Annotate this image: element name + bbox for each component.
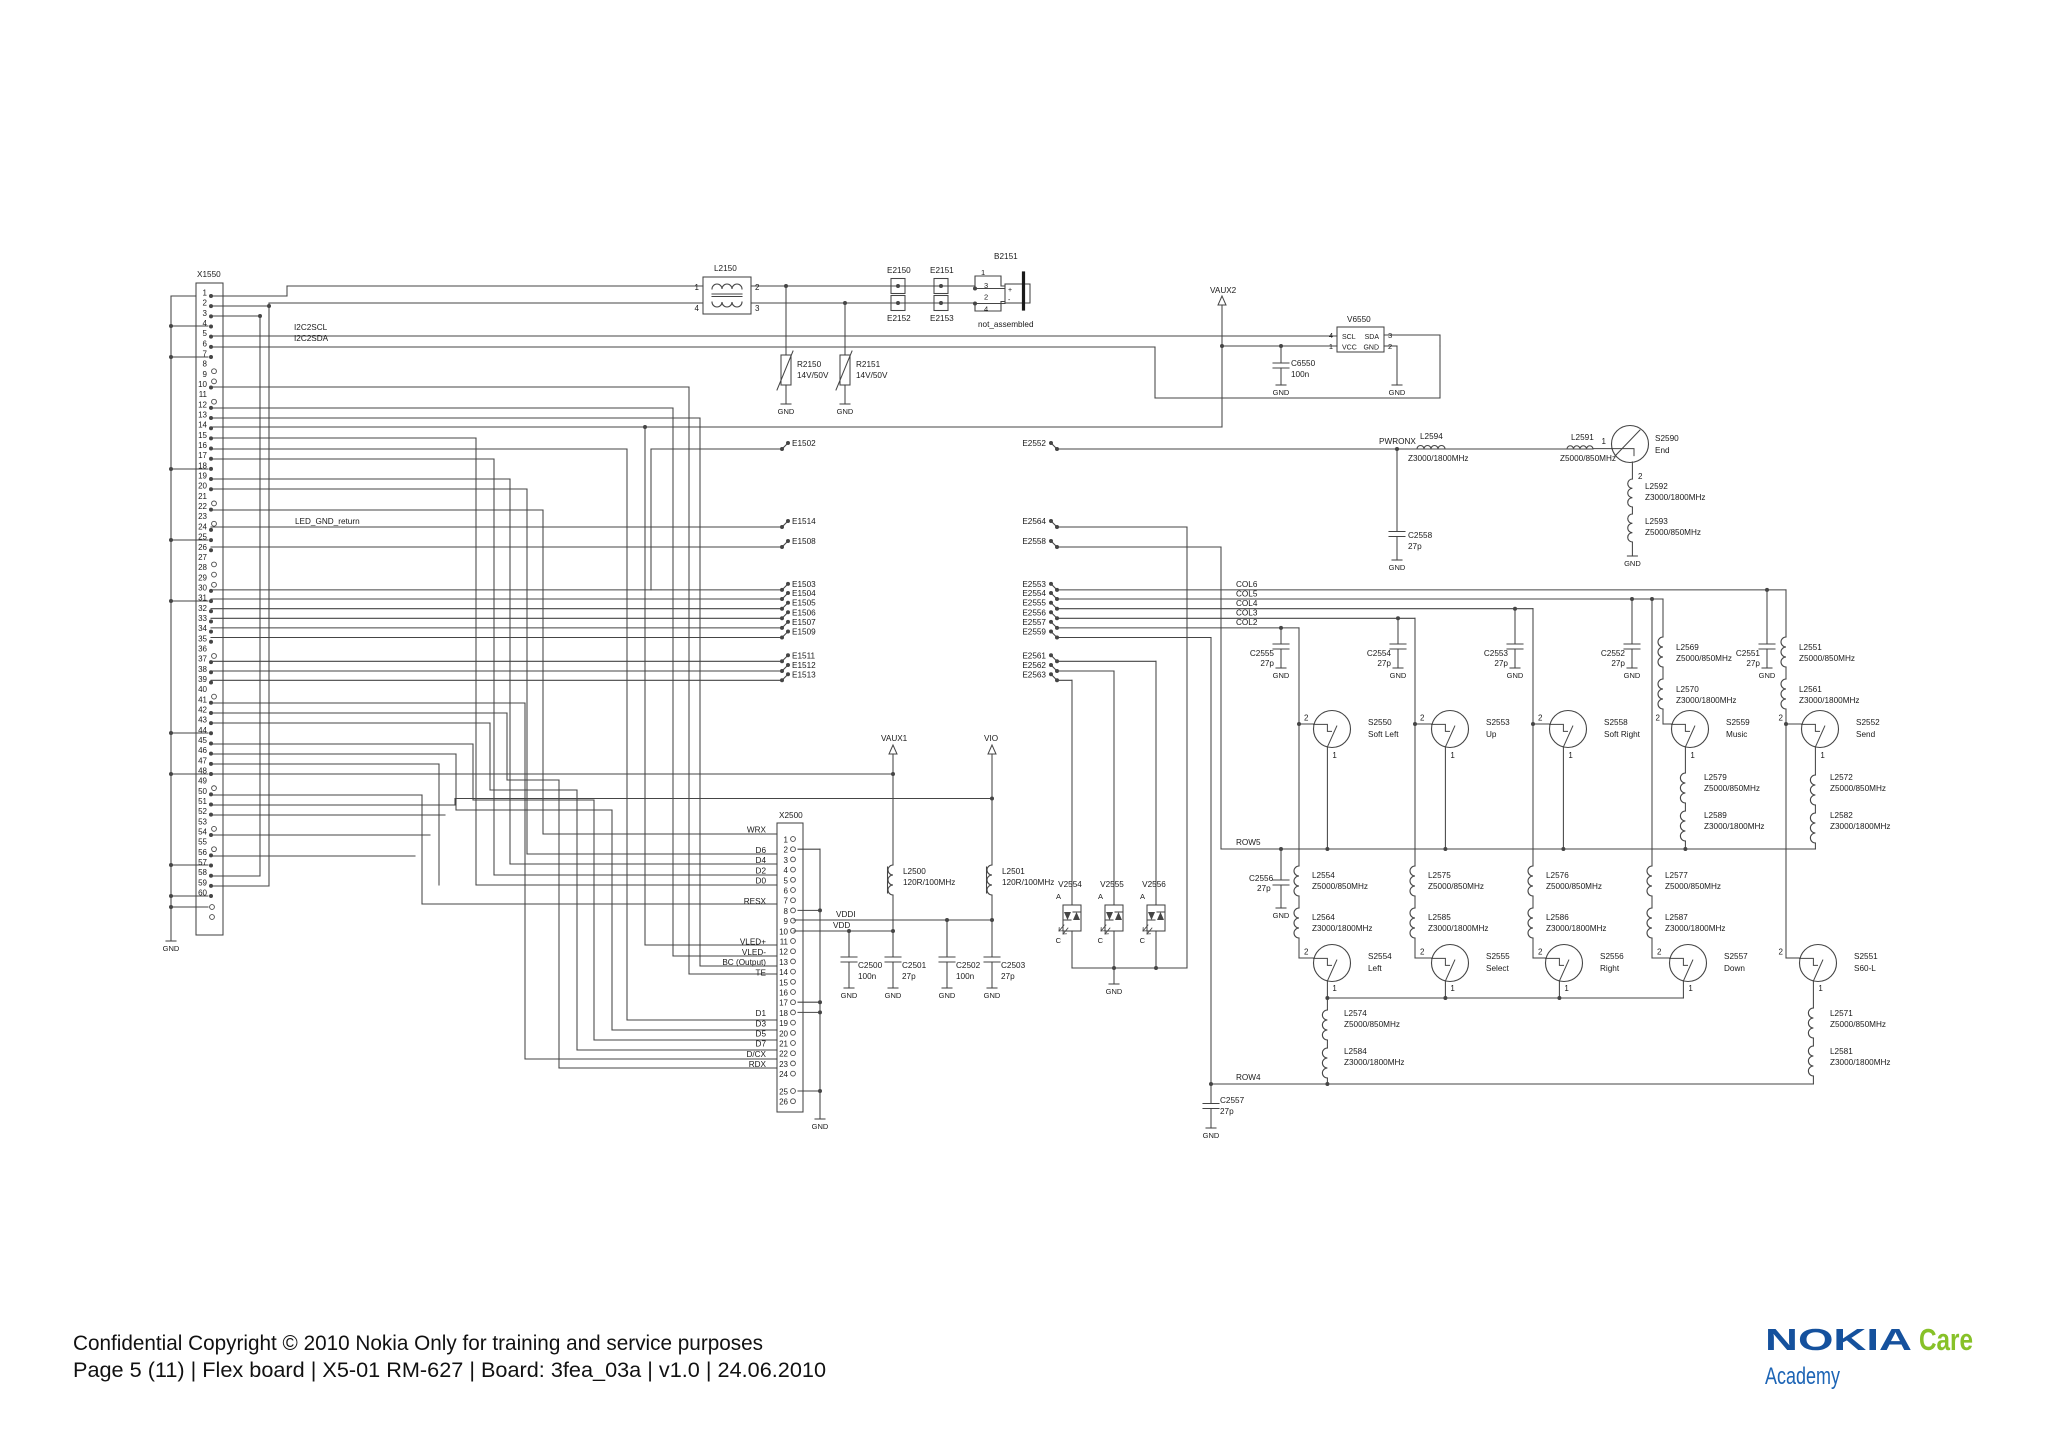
svg-text:L2570: L2570 — [1676, 685, 1699, 694]
svg-text:GND: GND — [1363, 345, 1379, 352]
svg-text:GND: GND — [885, 991, 902, 1000]
svg-text:L2589: L2589 — [1704, 811, 1727, 820]
svg-text:13: 13 — [779, 958, 788, 967]
svg-text:Z5000/850MHz: Z5000/850MHz — [1704, 784, 1760, 793]
svg-text:D2: D2 — [756, 866, 767, 875]
svg-text:35: 35 — [198, 634, 207, 643]
svg-text:S2550: S2550 — [1368, 718, 1392, 727]
svg-text:NOKIA: NOKIA — [1765, 1322, 1912, 1357]
svg-text:C2500: C2500 — [858, 961, 883, 970]
svg-text:L2587: L2587 — [1665, 913, 1688, 922]
svg-text:38: 38 — [198, 665, 207, 674]
svg-text:8: 8 — [784, 907, 789, 916]
svg-text:16: 16 — [779, 989, 788, 998]
svg-text:24: 24 — [198, 522, 207, 531]
svg-text:Z5000/850MHz: Z5000/850MHz — [1344, 1020, 1400, 1029]
svg-text:2: 2 — [1304, 714, 1309, 723]
svg-text:4: 4 — [695, 304, 700, 313]
svg-text:3: 3 — [784, 856, 789, 865]
svg-text:S2590: S2590 — [1655, 434, 1679, 443]
svg-text:S2552: S2552 — [1856, 718, 1880, 727]
svg-text:Soft Right: Soft Right — [1604, 730, 1641, 739]
svg-text:I2C2SCL: I2C2SCL — [294, 323, 328, 332]
svg-text:20: 20 — [198, 482, 207, 491]
svg-text:Z3000/1800MHz: Z3000/1800MHz — [1830, 1058, 1891, 1067]
svg-text:26: 26 — [779, 1098, 788, 1107]
svg-text:1: 1 — [1688, 984, 1693, 993]
svg-text:2: 2 — [1420, 714, 1425, 723]
svg-text:L2586: L2586 — [1546, 913, 1569, 922]
svg-text:VDD: VDD — [833, 921, 850, 930]
svg-text:4: 4 — [984, 305, 988, 314]
svg-text:C2501: C2501 — [902, 961, 927, 970]
svg-text:R2150: R2150 — [797, 360, 822, 369]
svg-text:COL4: COL4 — [1236, 599, 1258, 608]
svg-text:25: 25 — [198, 533, 207, 542]
svg-text:1: 1 — [1329, 342, 1333, 351]
svg-text:C2558: C2558 — [1408, 531, 1433, 540]
svg-text:L2577: L2577 — [1665, 871, 1688, 880]
svg-text:2: 2 — [1388, 342, 1392, 351]
svg-text:D5: D5 — [756, 1030, 767, 1039]
svg-text:VDDI: VDDI — [836, 910, 856, 919]
svg-text:15: 15 — [198, 431, 207, 440]
svg-text:6: 6 — [784, 887, 789, 896]
svg-text:E1507: E1507 — [792, 618, 816, 627]
svg-text:27: 27 — [198, 553, 207, 562]
svg-text:GND: GND — [1507, 671, 1524, 680]
svg-text:21: 21 — [779, 1040, 788, 1049]
svg-text:34: 34 — [198, 624, 207, 633]
svg-text:1: 1 — [1820, 751, 1825, 760]
svg-text:Z3000/1800MHz: Z3000/1800MHz — [1546, 924, 1607, 933]
svg-text:E1502: E1502 — [792, 439, 816, 448]
svg-text:X1550: X1550 — [197, 270, 221, 279]
svg-text:15: 15 — [779, 978, 788, 987]
svg-text:43: 43 — [198, 716, 207, 725]
svg-text:A: A — [1056, 892, 1061, 901]
svg-text:22: 22 — [198, 502, 207, 511]
svg-text:E2553: E2553 — [1022, 580, 1046, 589]
svg-text:2: 2 — [1420, 948, 1425, 957]
svg-text:L2561: L2561 — [1799, 685, 1822, 694]
svg-text:GND: GND — [778, 407, 795, 416]
svg-text:2: 2 — [1304, 948, 1309, 957]
svg-text:2: 2 — [784, 846, 789, 855]
svg-text:22: 22 — [779, 1050, 788, 1059]
svg-text:GND: GND — [837, 407, 854, 416]
svg-text:4: 4 — [784, 866, 789, 875]
svg-text:Z3000/1800MHz: Z3000/1800MHz — [1312, 924, 1373, 933]
svg-text:A: A — [1140, 892, 1145, 901]
svg-text:A: A — [1098, 892, 1103, 901]
svg-text:E2554: E2554 — [1022, 589, 1046, 598]
svg-text:100n: 100n — [858, 972, 877, 981]
svg-text:5: 5 — [203, 329, 208, 338]
svg-text:Music: Music — [1726, 730, 1747, 739]
svg-text:Z5000/850MHz: Z5000/850MHz — [1546, 882, 1602, 891]
svg-text:27p: 27p — [902, 972, 916, 981]
svg-text:Z5000/850MHz: Z5000/850MHz — [1799, 654, 1855, 663]
svg-text:C: C — [1140, 936, 1146, 945]
svg-text:24: 24 — [779, 1070, 788, 1079]
svg-text:1: 1 — [1450, 984, 1455, 993]
svg-text:S2554: S2554 — [1368, 952, 1392, 961]
svg-text:2: 2 — [755, 283, 760, 292]
svg-text:14V/50V: 14V/50V — [797, 371, 829, 380]
svg-text:GND: GND — [1389, 563, 1406, 572]
svg-text:30: 30 — [198, 583, 207, 592]
svg-text:5: 5 — [784, 876, 789, 885]
svg-text:L2576: L2576 — [1546, 871, 1569, 880]
svg-text:E1511: E1511 — [792, 651, 816, 660]
svg-text:L2584: L2584 — [1344, 1047, 1367, 1056]
svg-text:C2556: C2556 — [1249, 874, 1274, 883]
svg-text:100n: 100n — [1291, 370, 1310, 379]
svg-text:Z3000/1800MHz: Z3000/1800MHz — [1645, 493, 1706, 502]
svg-text:48: 48 — [198, 766, 207, 775]
svg-text:57: 57 — [198, 858, 207, 867]
svg-text:12: 12 — [198, 400, 207, 409]
svg-text:7: 7 — [203, 350, 208, 359]
svg-text:VLED+: VLED+ — [740, 938, 766, 947]
svg-text:53: 53 — [198, 817, 207, 826]
svg-text:E2561: E2561 — [1022, 651, 1046, 660]
svg-text:TE: TE — [756, 968, 767, 977]
svg-text:Soft Left: Soft Left — [1368, 730, 1399, 739]
svg-text:39: 39 — [198, 675, 207, 684]
svg-text:120R/100MHz: 120R/100MHz — [1002, 878, 1054, 887]
svg-text:S2557: S2557 — [1724, 952, 1748, 961]
svg-text:51: 51 — [198, 797, 207, 806]
svg-text:27p: 27p — [1001, 972, 1015, 981]
svg-text:GND: GND — [984, 991, 1001, 1000]
svg-text:VAUX1: VAUX1 — [881, 734, 908, 743]
svg-text:L2581: L2581 — [1830, 1047, 1853, 1056]
svg-text:27p: 27p — [1408, 542, 1422, 551]
svg-text:D0: D0 — [756, 877, 767, 886]
svg-text:GND: GND — [841, 991, 858, 1000]
svg-text:28: 28 — [198, 563, 207, 572]
svg-text:56: 56 — [198, 848, 207, 857]
svg-text:6: 6 — [203, 339, 208, 348]
svg-text:27p: 27p — [1377, 659, 1391, 668]
svg-text:58: 58 — [198, 868, 207, 877]
svg-text:1: 1 — [1332, 751, 1337, 760]
svg-text:E2557: E2557 — [1022, 618, 1046, 627]
svg-text:19: 19 — [779, 1019, 788, 1028]
svg-text:S2558: S2558 — [1604, 718, 1628, 727]
svg-text:E2558: E2558 — [1022, 537, 1046, 546]
svg-text:Z3000/1800MHz: Z3000/1800MHz — [1408, 454, 1469, 463]
svg-text:V6550: V6550 — [1347, 315, 1371, 324]
svg-text:E1509: E1509 — [792, 628, 816, 637]
svg-text:L2501: L2501 — [1002, 867, 1025, 876]
svg-text:VLED-: VLED- — [742, 948, 766, 957]
svg-text:D4: D4 — [756, 856, 767, 865]
svg-text:S2555: S2555 — [1486, 952, 1510, 961]
svg-text:E1505: E1505 — [792, 599, 816, 608]
svg-text:C: C — [1056, 936, 1062, 945]
svg-text:Right: Right — [1600, 964, 1620, 973]
svg-text:18: 18 — [779, 1009, 788, 1018]
svg-text:E2564: E2564 — [1022, 517, 1046, 526]
svg-text:1: 1 — [1450, 751, 1455, 760]
svg-text:1: 1 — [1818, 984, 1823, 993]
svg-text:44: 44 — [198, 726, 207, 735]
svg-text:50: 50 — [198, 787, 207, 796]
svg-text:GND: GND — [1273, 911, 1290, 920]
svg-text:2: 2 — [1638, 472, 1643, 481]
svg-text:36: 36 — [198, 644, 207, 653]
svg-text:S2556: S2556 — [1600, 952, 1624, 961]
svg-text:C2557: C2557 — [1220, 1096, 1245, 1105]
svg-text:C2551: C2551 — [1736, 649, 1761, 658]
svg-text:46: 46 — [198, 746, 207, 755]
svg-text:49: 49 — [198, 777, 207, 786]
svg-text:26: 26 — [198, 543, 207, 552]
svg-text:41: 41 — [198, 695, 207, 704]
svg-text:Confidential Copyright © 2010: Confidential Copyright © 2010 Nokia Only… — [73, 1332, 763, 1355]
svg-text:25: 25 — [779, 1088, 788, 1097]
svg-text:E1503: E1503 — [792, 580, 816, 589]
svg-text:L2594: L2594 — [1420, 432, 1443, 441]
svg-text:GND: GND — [1389, 388, 1406, 397]
svg-text:4: 4 — [203, 319, 208, 328]
svg-text:33: 33 — [198, 614, 207, 623]
svg-text:13: 13 — [198, 411, 207, 420]
svg-text:2: 2 — [1779, 948, 1784, 957]
svg-text:E1506: E1506 — [792, 608, 816, 617]
svg-text:S2553: S2553 — [1486, 718, 1510, 727]
svg-text:GND: GND — [939, 991, 956, 1000]
svg-text:29: 29 — [198, 573, 207, 582]
svg-text:L2554: L2554 — [1312, 871, 1335, 880]
svg-text:Care: Care — [1919, 1322, 1973, 1357]
svg-text:GND: GND — [1624, 671, 1641, 680]
svg-text:WRX: WRX — [747, 826, 767, 835]
svg-text:14: 14 — [779, 968, 788, 977]
svg-text:X2500: X2500 — [779, 811, 803, 820]
svg-text:Academy: Academy — [1765, 1363, 1841, 1390]
svg-text:3: 3 — [755, 304, 760, 313]
svg-text:10: 10 — [198, 380, 207, 389]
svg-text:D1: D1 — [756, 1009, 767, 1018]
svg-text:10: 10 — [779, 927, 788, 936]
svg-text:31: 31 — [198, 594, 207, 603]
svg-text:C2552: C2552 — [1601, 649, 1626, 658]
svg-text:C2554: C2554 — [1367, 649, 1392, 658]
svg-text:2: 2 — [1779, 714, 1784, 723]
svg-text:+: + — [1008, 287, 1012, 294]
svg-text:COL3: COL3 — [1236, 609, 1258, 618]
svg-text:1: 1 — [1602, 437, 1607, 446]
svg-text:E1508: E1508 — [792, 537, 816, 546]
svg-text:GND: GND — [1390, 671, 1407, 680]
svg-text:Z3000/1800MHz: Z3000/1800MHz — [1704, 822, 1765, 831]
svg-text:not_assembled: not_assembled — [978, 320, 1034, 329]
svg-text:2: 2 — [1657, 948, 1662, 957]
svg-text:E2556: E2556 — [1022, 608, 1046, 617]
svg-text:E2562: E2562 — [1022, 661, 1046, 670]
svg-text:L2593: L2593 — [1645, 517, 1668, 526]
svg-text:Z5000/850MHz: Z5000/850MHz — [1676, 654, 1732, 663]
svg-text:L2592: L2592 — [1645, 482, 1668, 491]
svg-text:60: 60 — [198, 889, 207, 898]
svg-text:23: 23 — [779, 1060, 788, 1069]
svg-text:C6550: C6550 — [1291, 359, 1316, 368]
svg-text:12: 12 — [779, 948, 788, 957]
svg-text:Select: Select — [1486, 964, 1509, 973]
svg-text:LED_GND_return: LED_GND_return — [295, 517, 360, 526]
svg-text:2: 2 — [1538, 714, 1543, 723]
svg-text:RDX: RDX — [749, 1060, 767, 1069]
svg-text:1: 1 — [1564, 984, 1569, 993]
svg-text:D7: D7 — [756, 1040, 767, 1049]
svg-text:E1514: E1514 — [792, 517, 816, 526]
svg-text:Z3000/1800MHz: Z3000/1800MHz — [1344, 1058, 1405, 1067]
svg-text:Z3000/1800MHz: Z3000/1800MHz — [1799, 696, 1860, 705]
svg-text:E2563: E2563 — [1022, 670, 1046, 679]
svg-text:E2559: E2559 — [1022, 628, 1046, 637]
svg-text:18: 18 — [198, 461, 207, 470]
svg-text:47: 47 — [198, 756, 207, 765]
svg-text:V2554: V2554 — [1058, 880, 1082, 889]
svg-text:C2555: C2555 — [1250, 649, 1275, 658]
svg-text:4: 4 — [1329, 331, 1333, 340]
svg-text:GND: GND — [1203, 1131, 1220, 1140]
svg-text:1: 1 — [784, 836, 789, 845]
svg-text:3: 3 — [984, 281, 988, 290]
svg-text:1: 1 — [981, 268, 985, 277]
svg-text:Z5000/850MHz: Z5000/850MHz — [1665, 882, 1721, 891]
svg-text:B2151: B2151 — [994, 252, 1018, 261]
svg-text:L2591: L2591 — [1571, 433, 1594, 442]
svg-text:I2C2SDA: I2C2SDA — [294, 334, 329, 343]
svg-text:32: 32 — [198, 604, 207, 613]
svg-text:C2553: C2553 — [1484, 649, 1509, 658]
svg-text:L2582: L2582 — [1830, 811, 1853, 820]
svg-text:17: 17 — [779, 999, 788, 1008]
svg-text:14: 14 — [198, 421, 207, 430]
svg-text:52: 52 — [198, 807, 207, 816]
svg-text:Page 5 (11) | Flex board |: Page 5 (11) | Flex board | X5-01 RM-627 … — [73, 1359, 826, 1382]
svg-text:59: 59 — [198, 878, 207, 887]
svg-text:COL5: COL5 — [1236, 590, 1258, 599]
svg-text:27p: 27p — [1611, 659, 1625, 668]
svg-text:V2556: V2556 — [1142, 880, 1166, 889]
svg-text:E2150: E2150 — [887, 266, 911, 275]
svg-text:L2585: L2585 — [1428, 913, 1451, 922]
svg-text:Z3000/1800MHz: Z3000/1800MHz — [1830, 822, 1891, 831]
svg-text:GND: GND — [812, 1122, 829, 1131]
svg-text:21: 21 — [198, 492, 207, 501]
svg-text:100n: 100n — [956, 972, 975, 981]
svg-text:27p: 27p — [1260, 659, 1274, 668]
svg-text:2: 2 — [1656, 714, 1661, 723]
svg-text:Z5000/850MHz: Z5000/850MHz — [1312, 882, 1368, 891]
svg-text:VAUX2: VAUX2 — [1210, 286, 1237, 295]
svg-text:1: 1 — [1332, 984, 1337, 993]
svg-text:11: 11 — [780, 938, 789, 947]
svg-text:E2552: E2552 — [1022, 439, 1046, 448]
svg-text:9: 9 — [784, 917, 789, 926]
svg-text:GND: GND — [163, 944, 180, 953]
svg-text:1: 1 — [1568, 751, 1573, 760]
svg-text:16: 16 — [198, 441, 207, 450]
svg-text:C2503: C2503 — [1001, 961, 1026, 970]
svg-text:GND: GND — [1273, 388, 1290, 397]
svg-text:2: 2 — [1538, 948, 1543, 957]
svg-text:L2150: L2150 — [714, 264, 737, 273]
svg-text:14V/50V: 14V/50V — [856, 371, 888, 380]
svg-text:L2551: L2551 — [1799, 643, 1822, 652]
svg-text:E2555: E2555 — [1022, 599, 1046, 608]
svg-text:SCL: SCL — [1342, 334, 1356, 341]
svg-text:E1513: E1513 — [792, 670, 816, 679]
svg-text:2: 2 — [203, 299, 208, 308]
svg-text:SDA: SDA — [1365, 334, 1380, 341]
svg-text:1: 1 — [1690, 751, 1695, 760]
svg-text:Send: Send — [1856, 730, 1876, 739]
svg-text:D/CX: D/CX — [746, 1050, 766, 1059]
svg-text:GND: GND — [1624, 559, 1641, 568]
svg-text:End: End — [1655, 446, 1670, 455]
svg-text:Z5000/850MHz: Z5000/850MHz — [1830, 1020, 1886, 1029]
svg-text:L2571: L2571 — [1830, 1009, 1853, 1018]
svg-text:S2559: S2559 — [1726, 718, 1750, 727]
svg-text:2: 2 — [984, 293, 988, 302]
svg-text:ROW4: ROW4 — [1236, 1073, 1261, 1082]
svg-text:S60-L: S60-L — [1854, 964, 1876, 973]
svg-text:120R/100MHz: 120R/100MHz — [903, 878, 955, 887]
svg-text:L2574: L2574 — [1344, 1009, 1367, 1018]
svg-text:1: 1 — [695, 283, 700, 292]
svg-text:VIO: VIO — [984, 734, 998, 743]
svg-text:COL6: COL6 — [1236, 580, 1258, 589]
svg-text:Z3000/1800MHz: Z3000/1800MHz — [1676, 696, 1737, 705]
svg-text:40: 40 — [198, 685, 207, 694]
svg-text:8: 8 — [203, 360, 208, 369]
svg-text:1: 1 — [203, 289, 208, 298]
svg-text:L2500: L2500 — [903, 867, 926, 876]
svg-text:Z3000/1800MHz: Z3000/1800MHz — [1665, 924, 1726, 933]
svg-text:D6: D6 — [756, 846, 767, 855]
svg-text:42: 42 — [198, 705, 207, 714]
svg-text:Up: Up — [1486, 730, 1497, 739]
svg-text:20: 20 — [779, 1029, 788, 1038]
svg-text:Z3000/1800MHz: Z3000/1800MHz — [1428, 924, 1489, 933]
svg-text:ROW5: ROW5 — [1236, 838, 1261, 847]
svg-text:55: 55 — [198, 838, 207, 847]
svg-text:L2572: L2572 — [1830, 773, 1853, 782]
svg-text:Z5000/850MHz: Z5000/850MHz — [1645, 528, 1701, 537]
svg-text:COL2: COL2 — [1236, 618, 1258, 627]
svg-text:45: 45 — [198, 736, 207, 745]
svg-text:E1504: E1504 — [792, 589, 816, 598]
svg-text:PWRONX: PWRONX — [1379, 437, 1416, 446]
svg-text:BC (Output): BC (Output) — [722, 958, 766, 967]
svg-text:27p: 27p — [1494, 659, 1508, 668]
svg-text:37: 37 — [198, 655, 207, 664]
svg-text:C2502: C2502 — [956, 961, 981, 970]
svg-text:GND: GND — [1759, 671, 1776, 680]
svg-text:L2564: L2564 — [1312, 913, 1335, 922]
svg-text:27p: 27p — [1220, 1107, 1234, 1116]
svg-text:7: 7 — [784, 897, 789, 906]
svg-text:C: C — [1098, 936, 1104, 945]
svg-text:27p: 27p — [1746, 659, 1760, 668]
